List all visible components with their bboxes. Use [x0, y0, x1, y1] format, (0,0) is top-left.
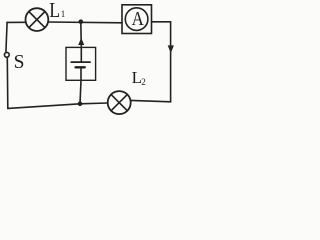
- svg-text:S: S: [14, 52, 25, 73]
- wire bottom-right (corner to L2): [131, 100, 171, 101]
- wire left vertical upper (switch lead): [6, 22, 7, 52]
- wire top-left horizontal: [7, 21, 26, 23]
- node junction top: [79, 19, 84, 24]
- lamp L2: [108, 91, 131, 114]
- wire middle vertical (junction to battery box): [80, 22, 83, 48]
- wire ammeter to top-right corner: [152, 21, 171, 23]
- ammeter A: [122, 5, 152, 34]
- lamp L1: [26, 8, 49, 31]
- wire bottom-left horizontal: [8, 104, 80, 109]
- svg-text:A: A: [132, 8, 145, 30]
- wire L2 to bottom junction: [80, 102, 108, 105]
- svg-text:1: 1: [61, 9, 66, 19]
- battery cell: [71, 47, 90, 80]
- battery box: [66, 47, 96, 80]
- current arrow down on right wire: [168, 45, 174, 53]
- node junction bottom: [78, 102, 83, 107]
- wire battery box to bottom junction: [80, 80, 81, 104]
- wire L1 to ammeter: [48, 21, 122, 24]
- svg-text:2: 2: [141, 77, 146, 87]
- wire left vertical lower (below switch): [6, 57, 9, 108]
- wire right vertical: [170, 22, 172, 102]
- current arrow up on battery branch: [78, 38, 84, 45]
- switch S contact circle: [4, 52, 9, 57]
- svg-text:L: L: [49, 0, 60, 22]
